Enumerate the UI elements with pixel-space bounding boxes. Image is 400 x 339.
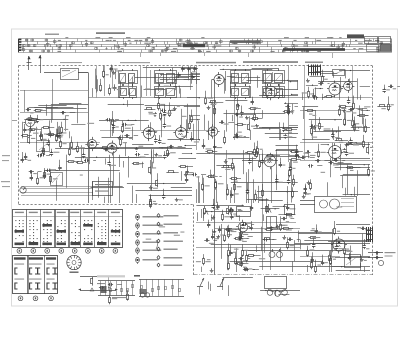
resistor R84 xyxy=(292,190,294,192)
callout text row xyxy=(196,62,236,64)
resistor R99 xyxy=(318,149,320,151)
resistor R105 xyxy=(224,233,226,235)
ground xyxy=(344,108,346,110)
resistor R125 xyxy=(330,256,332,258)
resistor R47 xyxy=(353,101,355,103)
wiring mesh mid center xyxy=(289,125,298,127)
wire xyxy=(352,66,354,110)
capacitor C46 xyxy=(40,154,42,156)
capacitor C41 xyxy=(332,133,334,135)
capacitor C116 xyxy=(384,88,386,90)
wire xyxy=(20,90,88,92)
resistor R115 xyxy=(235,256,237,258)
tuning gear xyxy=(67,255,81,273)
capacitor C114 xyxy=(364,244,366,246)
oscillator coil box xyxy=(37,141,50,152)
switch detail diagram A xyxy=(98,281,135,299)
ground xyxy=(236,133,238,135)
resistor R80 xyxy=(289,159,291,161)
wire xyxy=(215,228,300,230)
resistor R25 xyxy=(167,148,169,150)
resistor R30 xyxy=(224,136,226,138)
wiring mesh IF strip xyxy=(143,67,197,69)
chassis border right xyxy=(372,66,374,276)
wire xyxy=(304,66,306,161)
capacitor C50 xyxy=(29,171,31,173)
capacitor C61 xyxy=(203,144,205,146)
resistor R22 xyxy=(132,163,134,165)
resistor R76 xyxy=(289,169,291,171)
capacitor C6 xyxy=(61,112,63,114)
resistor R23 xyxy=(120,138,122,140)
wire xyxy=(96,66,98,98)
small box G3 xyxy=(237,207,251,217)
resistor R102 xyxy=(310,182,312,184)
power transformer xyxy=(265,277,287,289)
wiring mesh IF verticals xyxy=(173,86,193,88)
resistor R90 xyxy=(293,178,295,180)
capacitor C80 xyxy=(231,214,233,216)
capacitor C21 xyxy=(155,138,157,140)
capacitor C28 xyxy=(219,122,221,124)
capacitor C7 xyxy=(50,132,52,134)
capacitor C107 xyxy=(361,228,363,230)
capacitor C75 xyxy=(228,209,230,211)
ground xyxy=(174,107,176,109)
resistor R95 xyxy=(346,167,348,169)
capacitor C94 xyxy=(208,223,210,225)
capacitor C24 xyxy=(106,119,108,121)
tube V2 IF amp xyxy=(265,86,277,98)
tube V6 xyxy=(143,127,154,138)
value labels xyxy=(346,251,352,252)
capacitor C57 xyxy=(187,170,189,172)
IF transformer T1b xyxy=(119,87,137,98)
chassis border left xyxy=(18,66,20,205)
capacitor C117 xyxy=(99,287,101,289)
capacitor C4 xyxy=(24,128,26,130)
IF transformer T2 xyxy=(155,71,177,84)
switch detail diagram B xyxy=(139,280,184,298)
capacitor C53 xyxy=(46,170,48,172)
capacitor C100 xyxy=(219,228,221,230)
capacitor C103 xyxy=(243,269,245,271)
resistor R56 xyxy=(71,140,73,142)
resistor R1 xyxy=(21,135,23,137)
ground xyxy=(213,216,215,218)
resistor R16 xyxy=(158,102,160,104)
ground xyxy=(156,153,158,155)
capacitor C30 xyxy=(288,109,290,111)
capacitor C29 xyxy=(235,114,237,116)
capacitor C84 xyxy=(300,157,302,159)
capacitor C95 xyxy=(288,239,290,241)
chassis border bottom xyxy=(194,274,373,276)
capacitor C64 xyxy=(249,159,251,161)
wire xyxy=(24,90,26,112)
capacitor C104 xyxy=(238,258,240,260)
IF transformer T2b xyxy=(155,87,177,98)
capacitor C9 xyxy=(59,132,61,134)
resistor R59 xyxy=(77,144,79,146)
antenna coupling box L1 xyxy=(61,69,79,80)
resistor R83 xyxy=(227,187,229,189)
capacitor C101 xyxy=(238,236,240,238)
antenna A2 xyxy=(40,55,42,72)
resistor R101 xyxy=(363,140,365,142)
capacitor C78 xyxy=(287,205,289,207)
chassis border bottom-left xyxy=(19,204,194,206)
wire xyxy=(52,79,54,120)
wire xyxy=(20,112,88,114)
capacitor C31 xyxy=(283,127,285,129)
capacitor C56 xyxy=(163,194,165,196)
resistor R52 xyxy=(339,108,341,110)
dial drum switch band xyxy=(19,32,392,52)
wire xyxy=(262,150,264,270)
capacitor C72 xyxy=(210,176,212,178)
capacitor C26 xyxy=(124,135,126,137)
capacitor C52 xyxy=(31,175,33,177)
ground xyxy=(314,125,316,127)
ground xyxy=(344,148,346,150)
wire xyxy=(234,70,236,140)
capacitor C88 xyxy=(333,160,335,162)
ground xyxy=(214,230,216,232)
ground xyxy=(176,198,178,200)
resistor R50 xyxy=(311,127,313,129)
resistor R82 xyxy=(215,181,217,183)
resistor R104 xyxy=(287,241,289,243)
wire xyxy=(104,66,106,96)
resistor R33 xyxy=(209,102,211,104)
capacitor C93 xyxy=(251,225,253,227)
capacitor C91 xyxy=(238,238,240,240)
ground xyxy=(246,116,248,118)
wiring mesh under-border xyxy=(279,214,291,216)
capacitor C110 xyxy=(349,255,351,257)
coil box L5 xyxy=(51,173,63,186)
capacitor C27 xyxy=(234,136,236,138)
capacitor C86 xyxy=(315,160,317,162)
pot P3 xyxy=(268,204,270,206)
ground xyxy=(59,134,61,136)
IF transformer T3b xyxy=(231,87,251,98)
tube V10 rectifier xyxy=(333,239,345,251)
tube V11 xyxy=(87,139,96,148)
volume pot P1 xyxy=(204,206,206,208)
resistor R18 xyxy=(189,121,191,123)
wire xyxy=(288,66,290,163)
resistor R132 xyxy=(127,292,129,294)
ext output terminals xyxy=(368,252,383,254)
small box G3b xyxy=(285,205,295,215)
capacitor C48 xyxy=(22,158,24,160)
page sheet xyxy=(12,29,398,306)
resistor R131 xyxy=(109,296,111,298)
capacitor C82 xyxy=(350,139,352,141)
resistor R2 xyxy=(28,129,30,131)
capacitor C12 xyxy=(164,123,166,125)
wiring mesh mid left 2 xyxy=(159,147,168,149)
ground xyxy=(361,257,363,259)
resistor R79 xyxy=(245,152,247,154)
resistor R7 xyxy=(34,110,36,112)
capacitor C51 xyxy=(44,174,46,176)
capacitor C5 xyxy=(40,134,42,136)
resistor R34 xyxy=(249,122,251,124)
resistor R36 xyxy=(237,103,239,105)
capacitor C106 xyxy=(244,269,246,271)
bias divider circuit xyxy=(78,277,118,292)
resistor R64 xyxy=(44,170,46,172)
resistor R38 xyxy=(288,107,290,109)
resistor R103 xyxy=(234,238,236,240)
resistor R81 xyxy=(290,151,292,153)
capacitor C71 xyxy=(231,193,233,195)
small box PSU xyxy=(267,217,277,228)
resistor R45 xyxy=(352,119,354,121)
capacitor C70 xyxy=(247,189,249,191)
capacitor C89 xyxy=(305,187,307,189)
capacitor C68 xyxy=(288,179,290,181)
ground xyxy=(308,181,310,183)
tube V5 xyxy=(107,143,117,153)
capacitor C14 xyxy=(164,111,166,113)
IF transformer T1 xyxy=(119,71,138,84)
tube V3b xyxy=(344,82,353,91)
capacitor C96 xyxy=(212,234,214,236)
bandswitch contact table xyxy=(12,210,122,254)
resistor R27 xyxy=(122,125,124,127)
capacitor C111 xyxy=(322,260,324,262)
resistor R97 xyxy=(335,140,337,142)
capacitor C13 xyxy=(161,110,163,112)
resistor R42 xyxy=(308,90,310,92)
capacitor C74 xyxy=(281,218,283,220)
resistor R37 xyxy=(283,111,285,113)
capacitor C40 xyxy=(310,126,312,128)
capacitor C85 xyxy=(308,165,310,167)
resistor R54 xyxy=(357,115,359,117)
wiring mesh right mid xyxy=(324,130,360,132)
capacitor C36 xyxy=(318,83,320,85)
capacitor C115 xyxy=(388,86,390,88)
wiring mesh below line xyxy=(223,277,253,279)
resistor R100 xyxy=(368,168,370,170)
resistor R28 xyxy=(112,118,114,120)
resistor R39 xyxy=(284,129,286,131)
resistor R19 xyxy=(191,114,193,116)
resistor R72 xyxy=(266,155,268,157)
capacitor C58 xyxy=(186,177,188,179)
tube V13 xyxy=(238,222,248,232)
IF transformer T5 xyxy=(333,70,345,76)
capacitor C83 xyxy=(305,152,307,154)
wire xyxy=(270,217,272,270)
capacitor C22 xyxy=(191,136,193,138)
wiring mesh center audio xyxy=(247,199,269,201)
capacitor C109 xyxy=(312,258,314,260)
symbol legend xyxy=(136,214,183,268)
capacitor C76 xyxy=(229,210,231,212)
resistor R70 xyxy=(254,148,256,150)
resistor R107 xyxy=(228,230,230,232)
capacitor C25 xyxy=(113,124,115,126)
resistor R20 xyxy=(144,109,146,111)
tube V3 detector xyxy=(329,83,341,95)
resistor R10 xyxy=(61,125,63,127)
ground xyxy=(238,104,240,106)
wiring mesh mid left xyxy=(108,104,144,106)
chassis border top xyxy=(19,65,373,67)
resistor R66 xyxy=(150,200,152,202)
wiring mesh right audio xyxy=(335,167,370,169)
wire bus V1 xyxy=(88,73,90,203)
ground xyxy=(271,226,273,228)
wire xyxy=(215,154,290,156)
capacitor C32 xyxy=(285,106,287,108)
wire xyxy=(226,150,228,200)
capacitor C90 xyxy=(305,190,307,192)
resistor R9 xyxy=(56,133,58,135)
resistor R67 xyxy=(157,179,159,181)
wire xyxy=(300,256,340,258)
resistor R128 xyxy=(307,248,309,250)
resistor R113 xyxy=(242,248,244,250)
resistor R71 xyxy=(257,147,259,149)
wire xyxy=(300,142,372,144)
capacitor C92 xyxy=(242,224,244,226)
capacitor C98 xyxy=(263,239,265,241)
wire xyxy=(140,66,142,131)
ground xyxy=(155,112,157,114)
capacitor C55 xyxy=(192,174,194,176)
ground xyxy=(119,136,121,138)
wire xyxy=(20,142,100,144)
tube V8 output xyxy=(264,155,276,167)
capacitor C3 xyxy=(26,109,28,111)
wire xyxy=(196,222,296,224)
resistor R116 xyxy=(203,257,205,259)
wiring mesh right top xyxy=(309,76,325,78)
resistor R118 xyxy=(228,262,230,264)
choke box xyxy=(345,255,361,268)
tube V12 RF xyxy=(25,117,34,126)
phono jack xyxy=(20,187,26,193)
resistor R35 xyxy=(214,107,216,109)
capacitor C102 xyxy=(230,251,232,253)
resistor R129 xyxy=(388,103,390,105)
highlight mark xyxy=(97,275,125,277)
wire bus V215 xyxy=(214,80,216,275)
capacitor C45 xyxy=(48,141,50,143)
resistor R75 xyxy=(259,159,261,161)
resistor R85 xyxy=(255,193,257,195)
resistor R111 xyxy=(282,228,284,230)
electrolytic C90 xyxy=(269,252,275,258)
resistor R13 xyxy=(109,87,111,89)
resistor R31 xyxy=(205,96,207,98)
resistor R93 xyxy=(266,205,268,207)
ground xyxy=(277,225,279,227)
ground xyxy=(218,235,220,237)
resistor R63 xyxy=(50,175,52,177)
wire xyxy=(196,247,300,249)
IF transformer T4 xyxy=(263,71,285,84)
antenna A1 xyxy=(28,56,30,70)
wire xyxy=(300,110,345,112)
capacitor C1 xyxy=(30,127,32,129)
ground xyxy=(43,149,45,151)
resistor R53 xyxy=(319,122,321,124)
capacitor C65 xyxy=(214,144,216,146)
electrolytic C91 xyxy=(277,252,283,258)
wire bundle to output xyxy=(21,186,93,188)
capacitor C97 xyxy=(204,240,206,242)
resistor R62 xyxy=(69,147,71,149)
capacitor C62 xyxy=(280,162,282,164)
capacitor C33 xyxy=(252,100,254,102)
resistor R73 xyxy=(205,151,207,153)
capacitor C37 xyxy=(313,97,315,99)
ground xyxy=(307,79,309,81)
resistor R6 xyxy=(29,135,31,137)
capacitor C118 xyxy=(108,284,110,286)
margin labels xyxy=(2,155,10,156)
resistor R127 xyxy=(311,261,313,263)
capacitor C87 xyxy=(328,162,330,164)
resistor R126 xyxy=(334,227,336,229)
capacitor C47 xyxy=(84,160,86,162)
resistor R117 xyxy=(228,248,230,250)
resistor R46 xyxy=(354,123,356,125)
capacitor C16 xyxy=(103,149,105,151)
resistor R40 xyxy=(249,108,251,110)
capacitor C77 xyxy=(251,206,253,208)
dial pointer 2 xyxy=(220,278,224,286)
wiring mesh power upper xyxy=(310,243,335,245)
capacitor C60 xyxy=(295,156,297,158)
resistor R55 xyxy=(305,110,307,112)
capacitor C105 xyxy=(241,262,243,264)
capacitor C113 xyxy=(336,245,338,247)
wire xyxy=(78,72,89,74)
ground xyxy=(150,185,152,187)
resistor R4 xyxy=(42,127,44,129)
wiring mesh left RF xyxy=(59,103,81,105)
resistor R17 xyxy=(160,112,162,114)
capacitor C54 xyxy=(59,165,61,167)
resistor R120 xyxy=(236,263,238,265)
resistor R123 xyxy=(315,265,317,267)
ground xyxy=(346,143,348,145)
resistor R77 xyxy=(221,167,223,169)
capacitor C42 xyxy=(51,151,53,153)
tube V4 xyxy=(208,127,217,136)
resistor R88 xyxy=(234,183,236,185)
resistor R130 xyxy=(377,106,379,108)
resistor R106 xyxy=(225,229,227,231)
wafer switch table xyxy=(13,256,58,301)
dial pointer 1 xyxy=(200,278,204,286)
capacitor C8 xyxy=(57,133,59,135)
capacitor C79 xyxy=(217,204,219,206)
resistor R44 xyxy=(322,75,324,77)
IF transformer T3 xyxy=(231,71,251,84)
resistor R98 xyxy=(368,146,370,148)
dark component cluster D2 xyxy=(366,227,368,242)
